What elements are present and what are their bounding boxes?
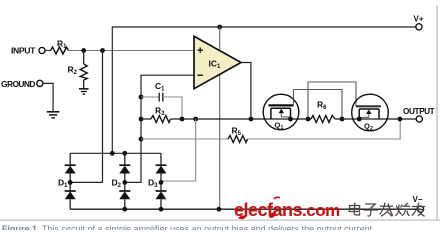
- resistor R1: [51, 39, 69, 55]
- 电: [349, 203, 360, 215]
- watermark elecfans.com: [234, 200, 340, 221]
- wire R1 to op-amp + input: [69, 50, 195, 52]
- svg-text:D1: D1: [58, 178, 68, 190]
- op-amp IC1: [194, 36, 241, 88]
- diode D3: [148, 153, 167, 209]
- resistor R3: [141, 106, 171, 123]
- wire V+ rail: [112, 27, 415, 154]
- svg-text:D2: D2: [112, 178, 122, 190]
- node INPUT terminal: [11, 46, 45, 56]
- node junction supply bottom: [217, 207, 222, 212]
- resistor R2: [68, 51, 88, 89]
- svg-text:INPUT: INPUT: [11, 46, 36, 56]
- node junction Q2 source: [357, 117, 362, 122]
- node junction bias tap: [193, 117, 198, 122]
- node junction C1 left: [139, 95, 144, 100]
- 烧: [396, 203, 410, 215]
- wire diode top rail: [70, 152, 161, 154]
- node junction R6 right: [340, 117, 345, 122]
- wire bias tap down to D3: [161, 119, 196, 182]
- node junction D1 mid: [68, 180, 73, 185]
- transistor Q2: [352, 94, 389, 132]
- node junction D3 bottom: [159, 207, 164, 212]
- svg-text:Q2: Q2: [364, 122, 373, 133]
- svg-text:V+: V+: [414, 15, 424, 24]
- wire ground terminal to earth: [43, 83, 53, 111]
- diode D2: [112, 153, 131, 209]
- node junction R2: [81, 48, 86, 53]
- wire input node down to D1 jog: [70, 51, 102, 183]
- node junction D2 mid: [122, 180, 127, 185]
- resistor R6: [311, 100, 335, 123]
- wire supply through op-amp: [219, 27, 221, 209]
- diode D1: [58, 153, 76, 209]
- wire R5 feedback line: [141, 138, 228, 140]
- capacitor C1: [141, 81, 182, 119]
- 子: [363, 204, 377, 216]
- svg-text:OUTPUT: OUTPUT: [403, 107, 435, 116]
- node GROUND terminal: [1, 79, 43, 89]
- svg-text:Q1: Q1: [275, 121, 284, 132]
- wire Q1 gate loop: [294, 90, 343, 120]
- node junction rail V+: [110, 151, 115, 156]
- caption: [2, 224, 375, 234]
- node V- terminal: [413, 195, 424, 212]
- svg-text:R3: R3: [155, 106, 165, 118]
- ground under R2: [79, 89, 89, 94]
- node OUTPUT terminal: [403, 107, 435, 122]
- node junction output feedback: [398, 117, 403, 122]
- svg-text:C1: C1: [155, 81, 165, 93]
- 友: [412, 203, 425, 216]
- 发: [380, 203, 393, 216]
- node junction to D1: [100, 48, 105, 53]
- node junction op-amp output: [249, 117, 254, 122]
- wire bottom rail V-: [70, 208, 421, 210]
- wire R6 to output: [335, 118, 416, 120]
- wire input to R1: [45, 50, 50, 52]
- svg-text:GROUND: GROUND: [1, 79, 35, 89]
- node junction V+ rail: [217, 25, 222, 30]
- wire Q2 gate loop: [308, 82, 356, 119]
- wire R5 to output node: [248, 119, 401, 139]
- watermark underline swirl: [230, 195, 300, 227]
- node junction R6 left: [306, 117, 311, 122]
- node junction R3 left: [139, 117, 144, 122]
- node junction rail D2: [122, 151, 127, 156]
- node junction Q1 source: [288, 117, 293, 122]
- node junction C1 right: [180, 117, 185, 122]
- node junction R5 left: [139, 137, 144, 142]
- svg-text:R2: R2: [68, 65, 78, 77]
- wire op-amp output: [241, 63, 251, 120]
- svg-text:D3: D3: [148, 178, 158, 190]
- node V+ terminal: [414, 15, 424, 30]
- wire main output node line: [171, 118, 312, 120]
- svg-text:R6: R6: [317, 100, 327, 112]
- watermark chinese 电子发烧友 drawn as vector strokes: [346, 201, 430, 221]
- node junction D3 mid: [159, 180, 164, 185]
- transistor Q1: [263, 94, 299, 131]
- node junction D2 bottom: [122, 207, 127, 212]
- wire inverting input: [125, 75, 194, 182]
- resistor R5: [228, 126, 248, 143]
- ground symbol lower: [47, 112, 60, 118]
